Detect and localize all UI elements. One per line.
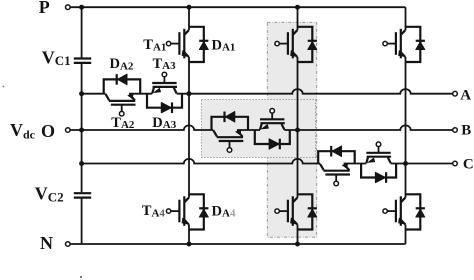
svg-text:VC1: VC1	[42, 48, 71, 69]
svg-text:O: O	[41, 121, 55, 141]
diode DC2	[318, 146, 355, 164]
junction P-phaseB	[295, 5, 300, 10]
svg-text:TA3: TA3	[153, 56, 177, 72]
transistor TB3	[260, 109, 285, 130]
diode DC3	[361, 164, 396, 183]
svg-text:Vdc: Vdc	[10, 120, 36, 142]
terminal P	[66, 5, 71, 10]
diode DA4	[199, 208, 208, 217]
diode DB3	[255, 130, 290, 149]
terminal N	[66, 242, 71, 247]
svg-text:P: P	[39, 0, 50, 17]
phase A leg wire	[188, 7, 190, 244]
transistor TB2	[213, 130, 243, 152]
junction rail-C neutral	[79, 161, 84, 166]
junction N-phaseB	[295, 242, 300, 247]
edge speck	[3, 86, 5, 88]
dotted highlight box phase-B neutral switch	[202, 100, 316, 158]
junction P-rail	[79, 5, 84, 10]
transistor TA1	[166, 27, 203, 62]
svg-text:C: C	[463, 157, 474, 173]
transistor TC3	[366, 142, 391, 163]
diode DC1	[416, 41, 425, 50]
phase C neutral wire	[82, 159, 453, 164]
transistor TC1	[383, 27, 420, 62]
transistor TC2	[320, 164, 350, 186]
capacitor C1	[74, 59, 91, 63]
transistor TB4	[275, 194, 312, 229]
svg-text:B: B	[461, 123, 471, 139]
diode DA3	[147, 94, 182, 113]
svg-text:DA2: DA2	[110, 56, 134, 72]
capacitor C2	[74, 193, 91, 197]
svg-text:A: A	[460, 87, 471, 103]
node C midpoint	[403, 161, 408, 166]
phase A output wire	[82, 89, 453, 94]
svg-text:DA4: DA4	[212, 203, 236, 219]
svg-text:DA3: DA3	[152, 115, 176, 131]
transistor TA4	[166, 194, 203, 229]
phase B leg wire	[297, 7, 299, 244]
P bus wire	[70, 6, 406, 8]
terminal C	[453, 161, 458, 166]
transistor TC4	[383, 194, 420, 229]
diode DB2	[212, 111, 249, 130]
dc-link rail wire	[81, 7, 83, 244]
diode DB1	[308, 41, 317, 50]
junction N-phaseA	[187, 242, 192, 247]
diode DA1	[199, 41, 208, 50]
diode DC4	[416, 208, 425, 217]
transistor TB1	[275, 27, 312, 62]
terminal A	[453, 91, 458, 96]
stray speck	[80, 276, 82, 278]
node A midpoint	[187, 91, 192, 96]
transistor TA3	[152, 72, 177, 93]
phase C leg wire	[405, 7, 407, 244]
terminal B	[453, 128, 458, 133]
svg-text:N: N	[40, 233, 53, 253]
svg-text:TA4: TA4	[142, 203, 166, 219]
svg-text:TA1: TA1	[143, 37, 166, 53]
junction rail-O	[79, 128, 84, 133]
N bus wire	[70, 243, 406, 245]
diode DB4	[308, 208, 317, 217]
terminal O	[66, 128, 71, 133]
dashed highlight box phase-B leg	[267, 22, 316, 237]
junction P-phaseA	[187, 5, 192, 10]
transistor TA2	[106, 94, 136, 116]
svg-text:DA1: DA1	[212, 37, 236, 53]
svg-text:VC2: VC2	[35, 184, 64, 205]
svg-text:TA2: TA2	[111, 115, 135, 131]
neutral / phase B output wire	[70, 125, 453, 130]
junction rail-A neutral	[79, 91, 84, 96]
diode DA2	[104, 74, 141, 94]
node B midpoint	[295, 128, 300, 133]
